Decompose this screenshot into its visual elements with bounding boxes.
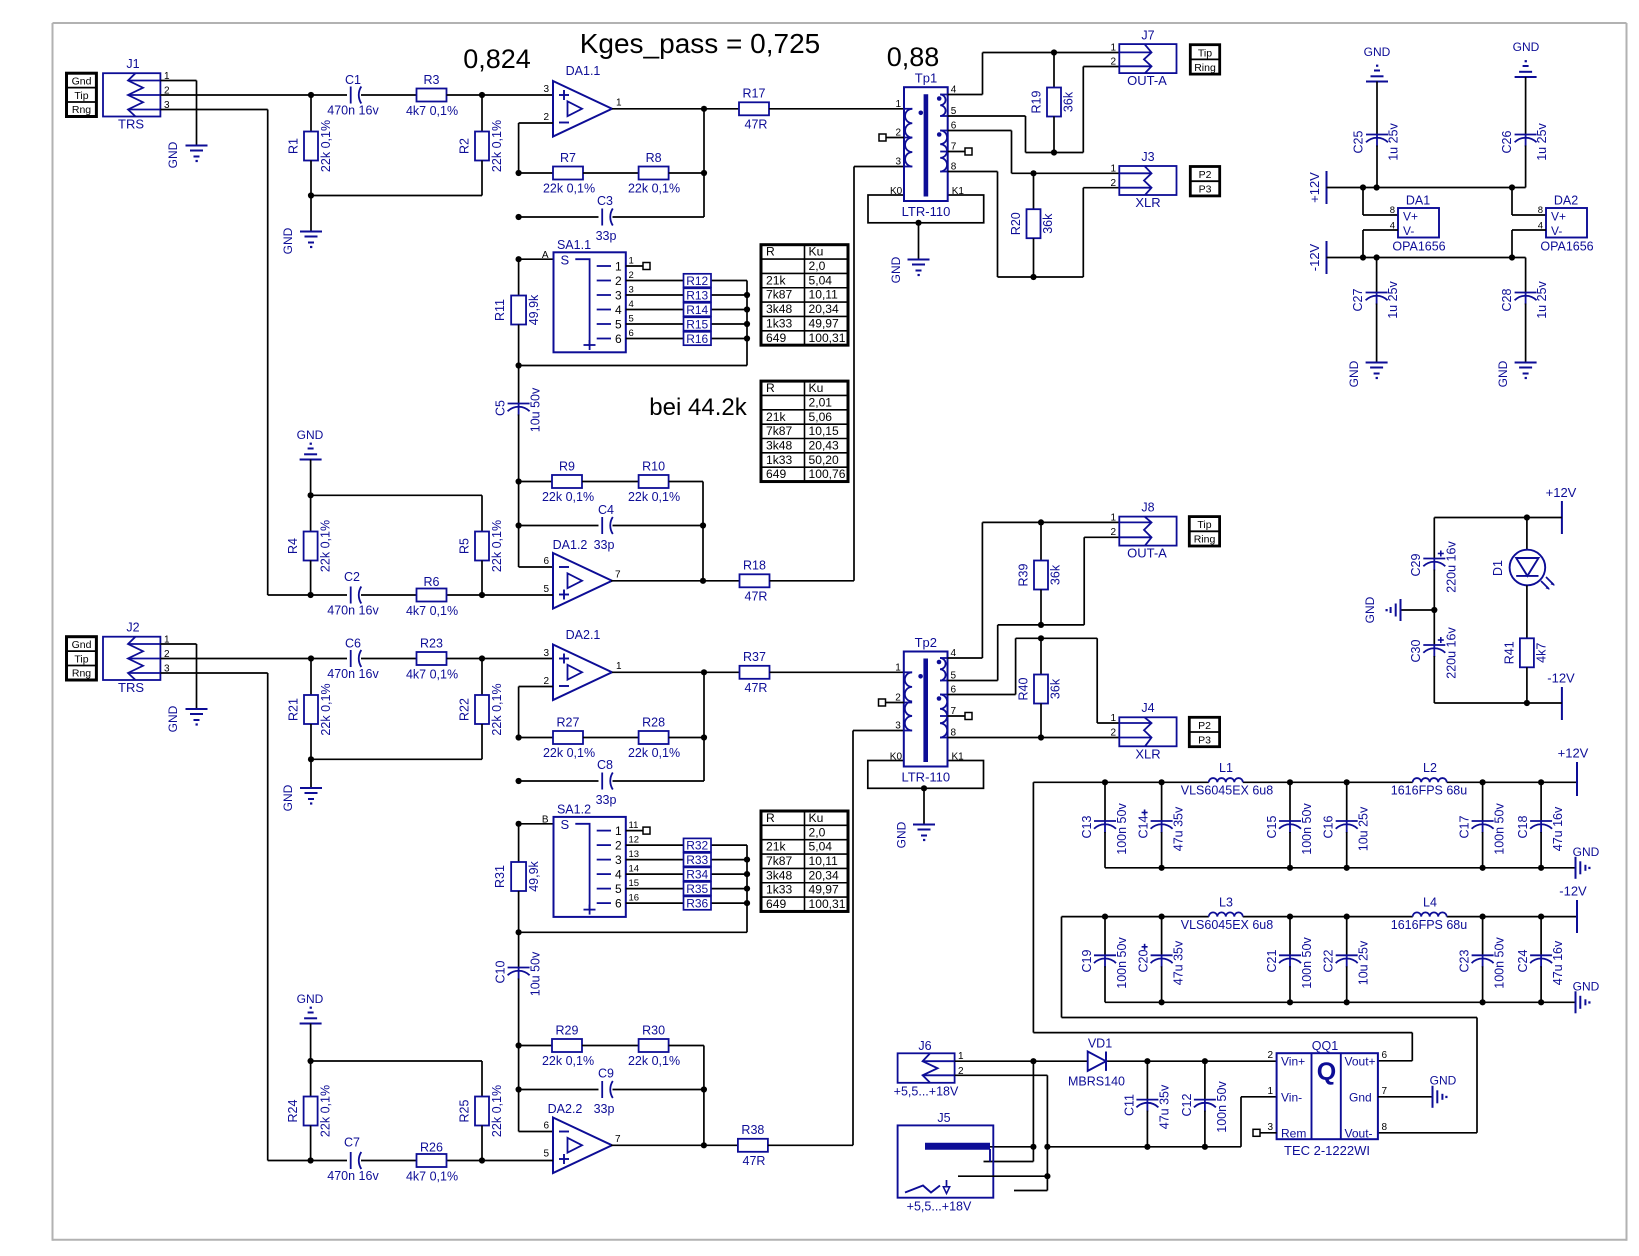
node junction R40 bottom bbox=[1038, 734, 1044, 740]
svg-text:D1: D1 bbox=[1491, 560, 1505, 576]
svg-text:R23: R23 bbox=[420, 637, 443, 651]
svg-text:7k87: 7k87 bbox=[766, 424, 792, 438]
wire R23 to opamp bbox=[447, 658, 554, 660]
capacitor C19 bbox=[1080, 917, 1129, 1003]
wire R18 to Tp1 pin3 bbox=[770, 167, 905, 581]
resistor R36 bbox=[626, 893, 747, 911]
svg-text:VLS6045EX 6u8: VLS6045EX 6u8 bbox=[1181, 918, 1273, 932]
svg-text:50,20: 50,20 bbox=[809, 453, 840, 467]
svg-text:+5,5...+18V: +5,5...+18V bbox=[907, 1200, 972, 1214]
resistor R17 bbox=[739, 87, 769, 132]
svg-text:47R: 47R bbox=[745, 681, 768, 695]
svg-text:3: 3 bbox=[543, 648, 549, 659]
svg-text:J5: J5 bbox=[937, 1111, 950, 1125]
capacitor C16 bbox=[1322, 782, 1371, 868]
wire J5 contact 2 bbox=[958, 1175, 1047, 1177]
capacitor C30 bbox=[1409, 610, 1459, 703]
svg-text:Vin+: Vin+ bbox=[1281, 1055, 1305, 1069]
svg-text:L2: L2 bbox=[1423, 761, 1437, 775]
node junction C4 right bbox=[700, 522, 706, 528]
svg-text:47R: 47R bbox=[745, 118, 768, 132]
wire C5 to DA1.2 pin6 bbox=[519, 566, 553, 568]
svg-text:C3: C3 bbox=[597, 194, 613, 208]
svg-text:21k: 21k bbox=[766, 840, 786, 854]
svg-text:2,01: 2,01 bbox=[809, 395, 833, 409]
svg-text:10,11: 10,11 bbox=[809, 288, 839, 302]
svg-text:1u 25v: 1u 25v bbox=[1387, 122, 1401, 160]
svg-text:R39: R39 bbox=[1017, 563, 1031, 586]
wire Tp1 pin8 to J3 pin2 bbox=[948, 172, 1120, 278]
svg-text:2: 2 bbox=[615, 838, 622, 852]
wire C6 to R23 bbox=[361, 658, 417, 660]
resistor R19 bbox=[1030, 53, 1076, 153]
svg-text:22k 0,1%: 22k 0,1% bbox=[319, 520, 333, 572]
node junction Vin- at J6 pin2 bbox=[1044, 1144, 1050, 1150]
ground GND below C27 bbox=[1347, 360, 1388, 387]
wire lower rail to DA2.2 pin5 bbox=[268, 1160, 553, 1162]
resistor R1 bbox=[287, 95, 334, 196]
wire Tp2 pin4 to J8 pin1 bbox=[948, 522, 1120, 658]
svg-text:4k7 0,1%: 4k7 0,1% bbox=[406, 604, 458, 618]
svg-text:4: 4 bbox=[615, 303, 622, 317]
svg-text:C27: C27 bbox=[1351, 288, 1365, 311]
wire R38 to Tp2 pin3 bbox=[768, 731, 904, 1146]
svg-text:47u 35v: 47u 35v bbox=[1172, 806, 1186, 851]
Tp2 pin2 open end bbox=[879, 699, 904, 706]
svg-text:649: 649 bbox=[766, 897, 786, 911]
svg-text:bei 44.2k: bei 44.2k bbox=[649, 394, 747, 421]
svg-text:22k 0,1%: 22k 0,1% bbox=[628, 746, 680, 760]
inductor L1 bbox=[1181, 761, 1273, 798]
node junction DA1.2 fb bbox=[700, 578, 706, 584]
svg-text:2: 2 bbox=[1267, 1050, 1273, 1061]
svg-text:GND: GND bbox=[1364, 45, 1391, 59]
node junction R9 left bbox=[516, 478, 522, 484]
svg-text:22k 0,1%: 22k 0,1% bbox=[543, 746, 595, 760]
svg-text:L1: L1 bbox=[1219, 761, 1233, 775]
svg-text:22k 0,1%: 22k 0,1% bbox=[319, 1085, 333, 1137]
svg-text:R20: R20 bbox=[1009, 212, 1023, 235]
svg-text:C6: C6 bbox=[345, 637, 361, 651]
wire J5 tip bar line bbox=[988, 1146, 1033, 1148]
svg-text:R34: R34 bbox=[686, 867, 708, 881]
node junctions -12V rail bbox=[1360, 254, 1515, 260]
svg-text:R31: R31 bbox=[493, 865, 507, 888]
connector J3 XLR bbox=[1119, 150, 1176, 210]
svg-text:J4: J4 bbox=[1141, 701, 1154, 715]
svg-text:15: 15 bbox=[629, 878, 640, 889]
svg-text:1u 25v: 1u 25v bbox=[1386, 280, 1400, 318]
svg-text:B: B bbox=[542, 815, 549, 826]
svg-text:XLR: XLR bbox=[1135, 747, 1160, 762]
svg-text:47u 16v: 47u 16v bbox=[1551, 806, 1565, 851]
svg-text:DA1.2: DA1.2 bbox=[553, 538, 588, 552]
node junction C1-R1 bbox=[308, 92, 314, 98]
wire R3 to opamp bbox=[447, 94, 554, 96]
svg-text:22k 0,1%: 22k 0,1% bbox=[490, 120, 504, 172]
svg-text:R25: R25 bbox=[458, 1099, 472, 1122]
svg-text:P2: P2 bbox=[1199, 169, 1212, 181]
svg-text:R14: R14 bbox=[686, 303, 708, 317]
resistor R4 bbox=[286, 495, 333, 595]
connector J2 pin table Gnd/Tip/Rng bbox=[67, 637, 97, 680]
svg-text:1k33: 1k33 bbox=[766, 883, 792, 897]
connector J7 OUT-A bbox=[1119, 29, 1176, 89]
svg-text:10u 50v: 10u 50v bbox=[529, 951, 543, 996]
node junction C9 left bbox=[516, 1086, 522, 1092]
node junction C7 left bbox=[308, 1157, 314, 1163]
svg-text:10u 25v: 10u 25v bbox=[1357, 806, 1371, 851]
svg-text:1: 1 bbox=[1110, 43, 1116, 54]
svg-text:LTR-110: LTR-110 bbox=[902, 204, 951, 219]
svg-text:R13: R13 bbox=[686, 288, 708, 302]
wire DA2.2 output bbox=[611, 1144, 738, 1146]
power +12V bar LED section bbox=[1434, 485, 1576, 534]
node junction R40 top bbox=[1038, 635, 1044, 641]
svg-text:-12V: -12V bbox=[1559, 884, 1587, 899]
wire feedback vertical bbox=[703, 109, 705, 217]
power +12V bar filter bbox=[1558, 746, 1589, 797]
resistor R29 bbox=[519, 1024, 594, 1069]
wire to ground below R21 bbox=[310, 759, 312, 788]
capacitor C11 bbox=[1123, 1061, 1172, 1147]
op-amp power DA2 OPA1656 bbox=[1538, 194, 1594, 254]
transformer Tp2 LTR-110 bbox=[868, 635, 984, 788]
svg-text:220u 16v: 220u 16v bbox=[1445, 541, 1459, 593]
node junction R19 bottom bbox=[1051, 149, 1057, 155]
svg-text:SA1.2: SA1.2 bbox=[557, 803, 591, 817]
svg-text:1616FPS 68u: 1616FPS 68u bbox=[1391, 784, 1467, 798]
op-amp DA1.1 bbox=[543, 64, 622, 137]
svg-text:R30: R30 bbox=[642, 1024, 665, 1038]
wire +12V filter bottom rail bbox=[1105, 867, 1576, 869]
svg-text:C26: C26 bbox=[1500, 130, 1514, 153]
svg-text:100n 50v: 100n 50v bbox=[1300, 803, 1314, 855]
wire R1-R2 bottom rail bbox=[311, 195, 482, 197]
svg-text:J1: J1 bbox=[126, 57, 139, 71]
svg-text:J6: J6 bbox=[918, 1039, 931, 1053]
svg-text:8: 8 bbox=[1538, 205, 1543, 216]
svg-text:S: S bbox=[561, 253, 570, 268]
svg-text:R11: R11 bbox=[493, 299, 507, 321]
svg-text:2: 2 bbox=[629, 270, 634, 281]
svg-text:Tp2: Tp2 bbox=[915, 635, 937, 650]
svg-text:TRS: TRS bbox=[118, 117, 144, 132]
resistor R41 bbox=[1503, 638, 1549, 703]
connector J2 TRS jack bbox=[103, 621, 160, 696]
svg-text:49,97: 49,97 bbox=[809, 883, 840, 897]
node junction C29-C30 mid bbox=[1431, 607, 1437, 613]
svg-text:3k48: 3k48 bbox=[766, 868, 792, 882]
wire A input bbox=[519, 258, 554, 260]
wire DA1.2 output bbox=[611, 580, 740, 582]
svg-text:R41: R41 bbox=[1503, 641, 1517, 664]
wire DA2.1 output bbox=[612, 671, 740, 673]
capacitor C3 bbox=[519, 194, 704, 243]
ground GND below R21 bbox=[281, 784, 322, 811]
svg-text:22k 0,1%: 22k 0,1% bbox=[490, 1085, 504, 1137]
diode D1 LED bbox=[1491, 518, 1555, 639]
svg-text:V+: V+ bbox=[1403, 210, 1418, 224]
node junction output feedback bbox=[701, 106, 707, 112]
wire J6 pin1 line to Vin+ bbox=[955, 1060, 1277, 1062]
svg-text:100n 50v: 100n 50v bbox=[1115, 937, 1129, 989]
svg-text:100,76: 100,76 bbox=[809, 467, 846, 481]
svg-text:2,0: 2,0 bbox=[809, 259, 826, 273]
node junction C6-R21 bbox=[308, 655, 314, 661]
label table Tip/Ring J8 bbox=[1189, 517, 1219, 546]
wire J1 pin1 to GND bbox=[160, 81, 196, 146]
ground GND at QQ1 bbox=[1430, 1074, 1457, 1108]
wire Tp1 pin4 to J7 pin1 bbox=[948, 53, 1120, 95]
svg-text:22k 0,1%: 22k 0,1% bbox=[628, 182, 680, 196]
wire R24-R25 top rail bbox=[311, 1060, 482, 1062]
svg-text:R3: R3 bbox=[424, 73, 440, 87]
capacitor C17 bbox=[1458, 782, 1507, 868]
ground GND filter row1 bbox=[1573, 845, 1600, 879]
wire R10 right bbox=[669, 482, 703, 582]
wire to ground below R1 bbox=[310, 196, 312, 232]
svg-text:47u 35v: 47u 35v bbox=[1172, 940, 1186, 985]
resistor R35 bbox=[626, 878, 747, 896]
svg-text:C5: C5 bbox=[494, 400, 508, 416]
svg-text:R10: R10 bbox=[642, 460, 665, 474]
op-amp power DA1 OPA1656 bbox=[1390, 194, 1446, 254]
Tp1 pin7 open end bbox=[948, 148, 972, 155]
node junctions +12V rail bbox=[1360, 184, 1515, 190]
svg-text:7k87: 7k87 bbox=[766, 854, 792, 868]
resistor R40 bbox=[1017, 638, 1063, 737]
svg-text:6: 6 bbox=[543, 1121, 549, 1132]
node junction R19 top bbox=[1051, 49, 1057, 55]
svg-text:20,34: 20,34 bbox=[809, 868, 840, 882]
svg-text:649: 649 bbox=[766, 331, 786, 345]
capacitor C27 bbox=[1351, 258, 1400, 363]
svg-text:R35: R35 bbox=[686, 882, 708, 896]
svg-text:C19: C19 bbox=[1080, 949, 1094, 972]
svg-text:2: 2 bbox=[1110, 728, 1116, 739]
svg-text:4: 4 bbox=[629, 299, 634, 310]
wire +12V rail to Vout+ bbox=[1033, 782, 1412, 1061]
wire QQ1 Gnd to ground bbox=[1378, 1096, 1433, 1098]
svg-text:2: 2 bbox=[615, 274, 622, 288]
svg-text:36k: 36k bbox=[1041, 213, 1055, 234]
svg-text:4k7 0,1%: 4k7 0,1% bbox=[406, 1170, 458, 1184]
wire R9-R10 bbox=[582, 481, 639, 483]
svg-text:49,97: 49,97 bbox=[809, 316, 840, 330]
wire Vin- line bbox=[1047, 1097, 1276, 1147]
resistor R39 bbox=[1017, 522, 1063, 625]
capacitor C23 bbox=[1458, 917, 1507, 1003]
svg-text:8: 8 bbox=[1382, 1122, 1388, 1133]
capacitor C12 bbox=[1180, 1061, 1229, 1147]
svg-text:GND: GND bbox=[281, 784, 295, 811]
svg-text:GND: GND bbox=[1513, 40, 1540, 54]
svg-text:C8: C8 bbox=[597, 758, 613, 772]
svg-text:K1: K1 bbox=[952, 186, 965, 197]
svg-text:DA1.1: DA1.1 bbox=[566, 64, 601, 78]
svg-text:VD1: VD1 bbox=[1088, 1037, 1112, 1051]
capacitor C22 bbox=[1322, 917, 1371, 1003]
resistor R14 bbox=[626, 299, 747, 317]
svg-text:R22: R22 bbox=[458, 698, 472, 721]
svg-text:Tp1: Tp1 bbox=[915, 71, 937, 86]
resistor R33 bbox=[626, 849, 747, 867]
svg-text:V+: V+ bbox=[1551, 210, 1566, 224]
svg-text:36k: 36k bbox=[1049, 678, 1063, 699]
wire R8 right bbox=[669, 172, 704, 174]
node junction B input bbox=[516, 821, 522, 827]
svg-text:Tip: Tip bbox=[74, 90, 88, 102]
resistor R2 bbox=[458, 95, 505, 196]
svg-text:6: 6 bbox=[1382, 1050, 1388, 1061]
svg-text:GND: GND bbox=[1430, 1074, 1457, 1088]
svg-text:C10: C10 bbox=[494, 960, 508, 983]
ground GND mid LED bbox=[1363, 596, 1434, 623]
resistor R10 bbox=[628, 460, 680, 505]
svg-text:100,31: 100,31 bbox=[809, 331, 846, 345]
wire R29-R30 bbox=[582, 1045, 639, 1047]
svg-text:47u 35v: 47u 35v bbox=[1158, 1084, 1172, 1129]
svg-text:C11: C11 bbox=[1123, 1094, 1137, 1116]
svg-text:R21: R21 bbox=[287, 698, 301, 721]
wire J6 pin2 down bbox=[955, 1075, 1048, 1190]
svg-text:P2: P2 bbox=[1198, 720, 1211, 732]
svg-text:P3: P3 bbox=[1199, 184, 1212, 196]
svg-text:1: 1 bbox=[616, 661, 622, 672]
node junctions filter row2 top bbox=[1102, 914, 1544, 920]
svg-text:1: 1 bbox=[615, 824, 622, 838]
svg-text:6: 6 bbox=[629, 328, 634, 339]
svg-text:C23: C23 bbox=[1458, 949, 1472, 972]
svg-text:C20: C20 bbox=[1137, 949, 1151, 972]
wire R7-R8 bbox=[583, 172, 639, 174]
svg-text:49,9k: 49,9k bbox=[527, 860, 541, 891]
svg-text:1u 25v: 1u 25v bbox=[1535, 122, 1549, 160]
svg-text:GND: GND bbox=[166, 141, 180, 168]
capacitor C8 bbox=[519, 758, 704, 807]
svg-text:R32: R32 bbox=[686, 838, 708, 852]
svg-text:22k 0,1%: 22k 0,1% bbox=[628, 490, 680, 504]
wire -12V filter top rail bbox=[1062, 916, 1578, 918]
label table P2/P3 J3 bbox=[1190, 167, 1219, 196]
svg-text:Rng: Rng bbox=[72, 104, 91, 116]
svg-text:Rng: Rng bbox=[72, 668, 91, 680]
svg-text:Ku: Ku bbox=[809, 245, 824, 259]
svg-text:21k: 21k bbox=[766, 410, 786, 424]
capacitor C9 bbox=[519, 1067, 704, 1117]
capacitor C10 bbox=[494, 932, 543, 1131]
svg-text:+12V: +12V bbox=[1546, 485, 1577, 500]
svg-text:22k 0,1%: 22k 0,1% bbox=[542, 1054, 594, 1068]
node junctions filter row1 bottom bbox=[1159, 865, 1545, 871]
node junction C3 left bbox=[516, 214, 522, 220]
node junctions collector B bbox=[516, 857, 751, 936]
svg-text:47u 16v: 47u 16v bbox=[1551, 940, 1565, 985]
svg-text:R40: R40 bbox=[1017, 677, 1031, 700]
node junction DA2.2 fb bbox=[701, 1142, 707, 1148]
svg-text:R27: R27 bbox=[557, 716, 580, 730]
node junction C8 left bbox=[516, 778, 522, 784]
svg-text:A: A bbox=[542, 250, 549, 261]
svg-text:C22: C22 bbox=[1322, 949, 1336, 972]
resistor R32 bbox=[626, 835, 747, 853]
svg-text:C25: C25 bbox=[1352, 130, 1366, 153]
wire R4-R5 top rail bbox=[311, 494, 482, 496]
svg-text:5,04: 5,04 bbox=[809, 840, 833, 854]
svg-text:8: 8 bbox=[1390, 205, 1395, 216]
svg-text:L3: L3 bbox=[1219, 896, 1233, 910]
svg-text:3: 3 bbox=[615, 288, 622, 302]
svg-text:GND: GND bbox=[1573, 980, 1600, 994]
svg-text:C9: C9 bbox=[598, 1067, 614, 1081]
svg-text:Gnd: Gnd bbox=[1349, 1091, 1372, 1105]
resistor R15 bbox=[626, 314, 747, 332]
wire SA1.2 collector vertical bbox=[519, 845, 747, 932]
svg-text:4k7 0,1%: 4k7 0,1% bbox=[406, 104, 458, 118]
resistor R9 bbox=[519, 460, 594, 505]
wire Tp2 pin8 to J4 pin2 bbox=[948, 737, 1120, 739]
svg-text:10,11: 10,11 bbox=[809, 854, 839, 868]
svg-text:C17: C17 bbox=[1458, 815, 1472, 838]
transformer Tp1 LTR-110 bbox=[868, 71, 984, 223]
svg-text:6: 6 bbox=[615, 896, 622, 910]
svg-text:12: 12 bbox=[629, 835, 640, 846]
svg-text:R16: R16 bbox=[686, 332, 708, 346]
svg-text:2,0: 2,0 bbox=[809, 825, 826, 839]
svg-text:R1: R1 bbox=[287, 138, 301, 154]
svg-text:6: 6 bbox=[615, 332, 622, 346]
svg-text:100n 50v: 100n 50v bbox=[1115, 803, 1129, 855]
power -12V bar filter bbox=[1559, 884, 1587, 934]
svg-text:22k 0,1%: 22k 0,1% bbox=[628, 1054, 680, 1068]
resistor R23 bbox=[406, 637, 458, 682]
svg-text:3: 3 bbox=[1267, 1122, 1273, 1133]
svg-text:16: 16 bbox=[629, 893, 640, 904]
wire R30 right bbox=[669, 1046, 704, 1146]
wire DA1.1 pin2 feedback bbox=[519, 123, 553, 173]
svg-text:J3: J3 bbox=[1141, 150, 1154, 164]
svg-text:R: R bbox=[766, 245, 775, 259]
svg-text:22k 0,1%: 22k 0,1% bbox=[319, 683, 333, 735]
SA1.2 pin 11 wire and open end bbox=[626, 820, 650, 834]
resistor R18 bbox=[740, 559, 770, 604]
ground GND above R4 bbox=[297, 428, 324, 495]
svg-text:470n 16v: 470n 16v bbox=[327, 604, 379, 618]
svg-text:C21: C21 bbox=[1265, 949, 1279, 972]
connector J5 barrel jack bbox=[898, 1111, 994, 1214]
node junction R39 bottom bbox=[1038, 622, 1044, 628]
svg-text:5,06: 5,06 bbox=[809, 410, 833, 424]
svg-text:C30: C30 bbox=[1409, 639, 1423, 662]
resistor R7 bbox=[519, 151, 595, 196]
svg-text:-12V: -12V bbox=[1547, 671, 1575, 686]
svg-text:1k33: 1k33 bbox=[766, 316, 792, 330]
resistor R3 bbox=[406, 73, 458, 118]
svg-text:1: 1 bbox=[1110, 513, 1116, 524]
svg-text:7: 7 bbox=[615, 570, 621, 581]
svg-text:GND: GND bbox=[1496, 360, 1510, 387]
node junction R28 right bbox=[701, 734, 707, 740]
node junction R8 right bbox=[701, 170, 707, 176]
wire B input bbox=[519, 823, 554, 825]
svg-text:2: 2 bbox=[1110, 57, 1116, 68]
svg-text:3: 3 bbox=[615, 853, 622, 867]
capacitor C7 bbox=[327, 1136, 379, 1184]
svg-text:K0: K0 bbox=[890, 752, 903, 763]
capacitor C5 bbox=[494, 366, 543, 568]
resistor R22 bbox=[458, 659, 505, 760]
